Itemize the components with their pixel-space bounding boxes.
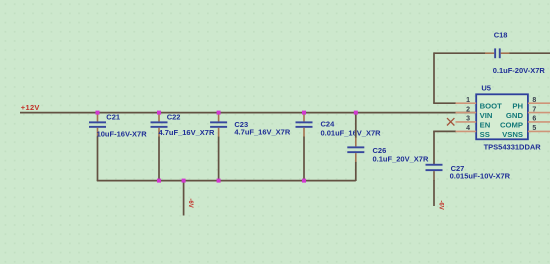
junction C23 bottom rail bbox=[217, 179, 221, 183]
svg-text:-6V: -6V bbox=[437, 200, 443, 209]
svg-text:VSNS: VSNS bbox=[502, 130, 523, 139]
svg-text:0.1uF_20V_X7R: 0.1uF_20V_X7R bbox=[373, 154, 429, 163]
svg-text:1: 1 bbox=[466, 97, 470, 104]
capacitor C18 bbox=[434, 30, 550, 74]
wire: C18 left leg down to BOOT pin bbox=[433, 52, 435, 103]
svg-text:0.01uF_16V_X7R: 0.01uF_16V_X7R bbox=[321, 129, 382, 138]
junction C22 bottom rail bbox=[157, 179, 161, 183]
svg-text:0.015uF-10V-X7R: 0.015uF-10V-X7R bbox=[450, 171, 511, 180]
capacitor C24 bbox=[296, 113, 382, 181]
svg-text:3: 3 bbox=[466, 116, 470, 123]
junction -6V stem bottom rail bbox=[182, 179, 186, 183]
U5 pin 3 EN with no-ERC cross bbox=[447, 116, 491, 130]
svg-text:PH: PH bbox=[512, 102, 523, 111]
svg-text:C22: C22 bbox=[167, 112, 181, 121]
svg-text:5: 5 bbox=[532, 125, 536, 132]
junction C22 top rail bbox=[157, 111, 161, 115]
wire: SS leg down to C27 bbox=[433, 131, 435, 164]
svg-text:U5: U5 bbox=[481, 83, 491, 92]
svg-text:-6V: -6V bbox=[187, 198, 193, 207]
svg-text:8: 8 bbox=[532, 97, 536, 104]
junction C26 top rail bbox=[354, 111, 358, 115]
junction C24 top rail bbox=[302, 111, 306, 115]
wire: BOOT pin 1 connection bbox=[433, 102, 456, 104]
svg-text:EN: EN bbox=[480, 120, 491, 129]
wire: +12V top rail bbox=[20, 112, 476, 114]
junction C24 bottom rail bbox=[302, 179, 306, 183]
U5 pin 2 VIN bbox=[456, 106, 493, 120]
capacitor C27 bbox=[426, 164, 511, 206]
U5 pin 6 COMP bbox=[500, 116, 550, 130]
svg-text:COMP: COMP bbox=[500, 120, 523, 129]
svg-text:7: 7 bbox=[532, 106, 536, 113]
capacitor C26 bbox=[347, 113, 429, 181]
op-amp U5 TPS54331DDAR body bbox=[476, 83, 541, 151]
svg-text:10uF-16V-X7R: 10uF-16V-X7R bbox=[97, 130, 148, 139]
svg-text:0.1uF-20V-X7R: 0.1uF-20V-X7R bbox=[493, 66, 546, 75]
svg-text:4.7uF_16V_X7R: 4.7uF_16V_X7R bbox=[234, 127, 290, 136]
junction C23 top rail bbox=[217, 111, 221, 115]
wire: bottom ground rail bbox=[97, 180, 356, 182]
wire: SS pin 4 connection bbox=[433, 130, 456, 132]
capacitor C21 bbox=[89, 113, 147, 182]
capacitor C22 bbox=[151, 112, 215, 181]
svg-text:C21: C21 bbox=[106, 113, 120, 122]
svg-text:4.7uF_16V_X7R: 4.7uF_16V_X7R bbox=[159, 128, 215, 137]
svg-text:VIN: VIN bbox=[480, 111, 493, 120]
svg-text:C18: C18 bbox=[494, 30, 508, 39]
svg-text:SS: SS bbox=[480, 130, 490, 139]
capacitor C23 bbox=[210, 113, 291, 181]
power port -6V stem below ground rail bbox=[184, 181, 193, 216]
svg-text:C24: C24 bbox=[321, 120, 336, 129]
U5 pin 4 SS bbox=[456, 125, 490, 139]
svg-text:2: 2 bbox=[466, 106, 470, 113]
svg-text:GND: GND bbox=[506, 111, 524, 120]
U5 pin 8 PH bbox=[512, 97, 550, 111]
svg-text:4: 4 bbox=[466, 125, 470, 132]
svg-text:TPS54331DDAR: TPS54331DDAR bbox=[484, 143, 542, 152]
svg-text:6: 6 bbox=[532, 116, 536, 123]
U5 pin 5 VSNS bbox=[502, 125, 550, 139]
svg-text:BOOT: BOOT bbox=[480, 102, 503, 111]
U5 pin 7 GND bbox=[506, 106, 550, 120]
junction C21 top rail bbox=[96, 111, 100, 115]
svg-text:+12V: +12V bbox=[21, 103, 40, 112]
U5 pin 1 BOOT bbox=[456, 97, 503, 111]
